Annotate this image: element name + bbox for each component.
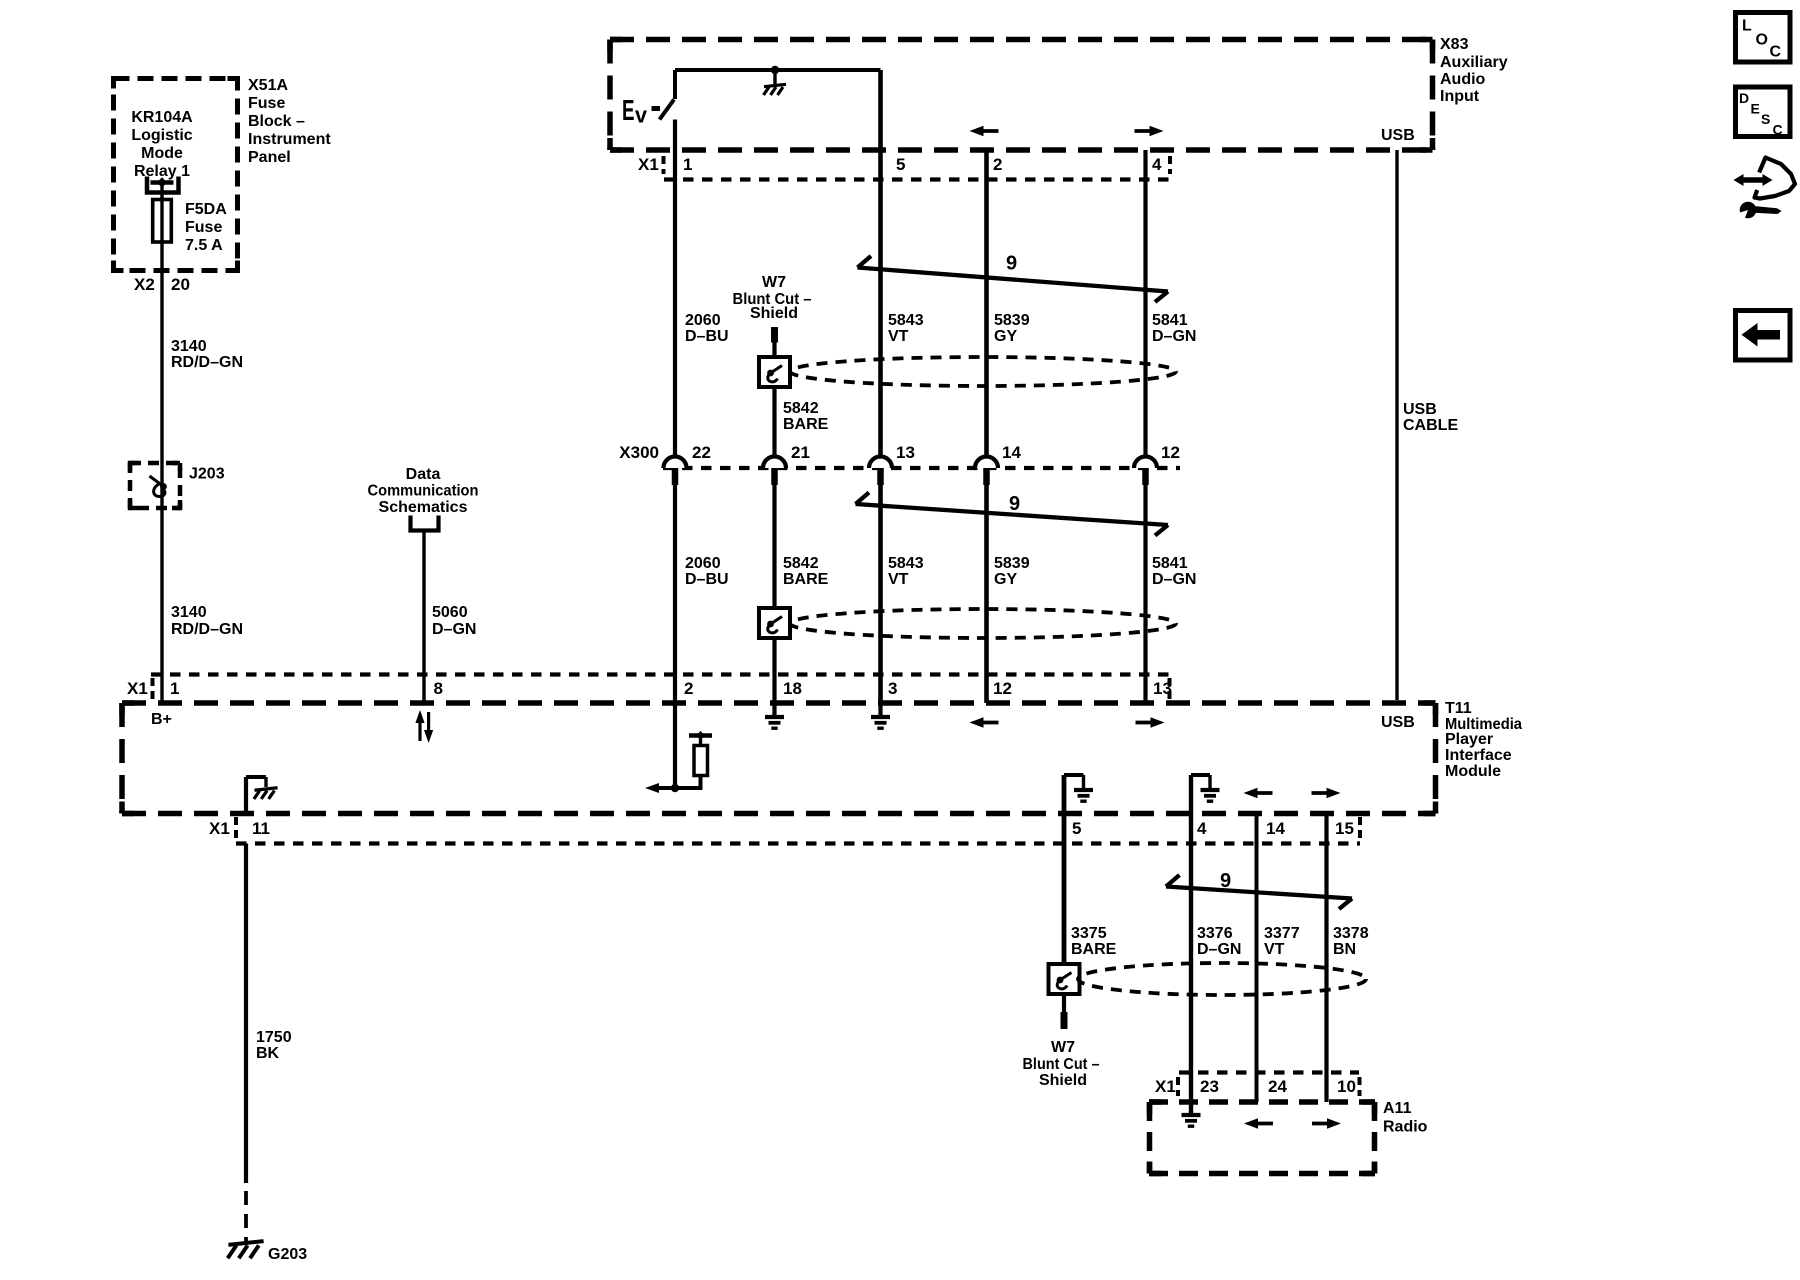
wire 5843 VT (X83 pin 5 to X300 pin 13) [878, 70, 883, 457]
svg-text:4: 4 [1197, 819, 1207, 838]
transfer arrow 9 (middle) [856, 493, 1169, 536]
label wire 1750 BK [256, 1029, 292, 1062]
connector X300 pin 13 [869, 443, 915, 485]
bidirectional arrows below T11 pin 8 [415, 710, 433, 743]
connector T11 X1 dotted row (bottom) [236, 817, 1360, 844]
svg-text:Player: Player [1445, 731, 1493, 748]
fuse block X51A box [114, 79, 238, 271]
shield ellipse (upper) [790, 357, 1176, 386]
wire 5839 GY (X300 to T11 pin 12) [984, 485, 989, 703]
svg-text:F5DA: F5DA [185, 201, 227, 218]
svg-text:X1: X1 [209, 819, 230, 838]
svg-text:8: 8 [434, 679, 443, 698]
wire below shield box to blunt cut [1062, 994, 1066, 1012]
label J203 [189, 466, 225, 483]
wire 3377 VT (T11 pin 14 to radio pin 24) [1255, 814, 1259, 1103]
svg-text:14: 14 [1002, 443, 1021, 462]
svg-text:O: O [1756, 32, 1768, 49]
wire 5839 GY (X83 pin 2 to X300 pin 14) [984, 150, 989, 457]
shield splice box (upper) [759, 357, 790, 387]
svg-text:3: 3 [888, 679, 897, 698]
svg-text:X83: X83 [1440, 36, 1469, 53]
svg-text:BARE: BARE [1071, 941, 1117, 958]
label USB (T11 pin) [1381, 714, 1415, 731]
svg-text:USB: USB [1381, 714, 1415, 731]
svg-text:VT: VT [888, 328, 909, 345]
svg-text:1750: 1750 [256, 1029, 292, 1046]
connector X2 pin 20 labels [134, 275, 190, 294]
shield splice box (lower) [1049, 964, 1080, 994]
svg-text:2: 2 [993, 155, 1002, 174]
svg-text:W7: W7 [762, 274, 786, 291]
svg-text:S: S [1761, 111, 1770, 127]
junction node inside X83 [771, 66, 779, 74]
ground G203 [228, 1241, 264, 1258]
splice J203 [130, 463, 180, 508]
label wire 3140 RD/D-GN (upper) [171, 338, 243, 371]
T11 pin 2 internal circuit: wire, junction, arrow, resistor to B+ [673, 703, 677, 788]
svg-text:5843: 5843 [888, 555, 924, 572]
svg-text:L: L [1742, 18, 1752, 35]
label USB CABLE [1403, 401, 1458, 434]
svg-text:3140: 3140 [171, 338, 207, 355]
label F5DA Fuse 7.5 A [185, 201, 227, 254]
label A11 Radio [1383, 1100, 1428, 1136]
svg-text:1: 1 [683, 155, 692, 174]
svg-text:12: 12 [993, 679, 1012, 698]
wire 5842 BARE shield drain (upper) [772, 343, 776, 457]
internal arrow right at radio pin 10 [1312, 1118, 1341, 1129]
label wire 5842 BARE (middle) [783, 555, 829, 588]
connector X83 X1 dotted row [664, 156, 1171, 180]
label wire 2060 D-BU (upper) [685, 312, 729, 345]
internal ground hook at T11 pin 11 [246, 777, 278, 814]
svg-text:BK: BK [256, 1045, 280, 1062]
internal arrow left at T11 pin 14 [1244, 788, 1273, 799]
svg-text:Communication: Communication [368, 483, 479, 500]
wire 5841 D-GN (X83 pin 4 to X300 pin 12) [1143, 150, 1147, 457]
svg-text:KR104A: KR104A [131, 109, 193, 126]
svg-text:3375: 3375 [1071, 925, 1107, 942]
svg-text:RD/D–GN: RD/D–GN [171, 354, 243, 371]
wire 3375 BARE shield drain [1062, 814, 1067, 965]
wire 2060 D-BU (X300 to T11 pin 2) [673, 485, 677, 703]
svg-text:Radio: Radio [1383, 1119, 1428, 1136]
svg-text:5060: 5060 [432, 604, 468, 621]
svg-text:G203: G203 [268, 1246, 307, 1263]
svg-text:VT: VT [1264, 941, 1285, 958]
label wire 5839 GY (upper) [994, 312, 1030, 345]
svg-text:Panel: Panel [248, 149, 291, 166]
svg-text:Module: Module [1445, 763, 1501, 780]
label wire 5842 BARE (upper) [783, 400, 829, 433]
svg-text:24: 24 [1268, 1077, 1287, 1096]
wire 3376 D-GN (T11 pin 4 to radio pin 23) [1189, 814, 1193, 1114]
wire 5841 D-GN (X300 to T11 pin 13) [1143, 485, 1147, 703]
wire 1750 BK [244, 844, 248, 1184]
internal ground at radio pin 23 [1182, 1115, 1201, 1126]
label wire 3375 BARE [1071, 925, 1117, 958]
connector T11 X1 dotted row (top) [151, 675, 1170, 700]
label T11 Multimedia Player Interface Module [1445, 700, 1522, 780]
svg-text:2: 2 [684, 679, 693, 698]
svg-text:15: 15 [1335, 819, 1354, 838]
svg-text:B+: B+ [151, 711, 172, 728]
svg-text:D–GN: D–GN [1152, 328, 1196, 345]
relay KR104A contact symbol [147, 177, 179, 200]
wire 5060 D-GN to T11 pin 8 [422, 531, 425, 704]
svg-text:USB: USB [1381, 127, 1415, 144]
shield ellipse (middle) [790, 609, 1176, 638]
internal arrow left at radio pin 24 [1244, 1118, 1273, 1129]
svg-text:BARE: BARE [783, 571, 829, 588]
label USB (X83 pin) [1381, 127, 1415, 144]
svg-text:21: 21 [791, 443, 810, 462]
internal pull-up fuse/resistor at pin 2 [689, 731, 712, 790]
svg-text:23: 23 [1200, 1077, 1219, 1096]
connector X83 X1 pin labels [638, 155, 1162, 174]
internal ground hook at T11 pin 5 [1064, 775, 1093, 814]
svg-text:Auxiliary: Auxiliary [1440, 54, 1508, 71]
shield ellipse (lower) [1078, 963, 1366, 995]
svg-text:X300: X300 [619, 443, 659, 462]
svg-text:2060: 2060 [685, 312, 721, 329]
svg-text:18: 18 [783, 679, 802, 698]
svg-text:22: 22 [692, 443, 711, 462]
svg-text:5839: 5839 [994, 555, 1030, 572]
svg-text:VT: VT [888, 571, 909, 588]
svg-text:5: 5 [1072, 819, 1081, 838]
internal arrow left (pin 2) [645, 783, 702, 793]
svg-text:Blunt Cut –: Blunt Cut – [1023, 1056, 1100, 1073]
svg-text:Shield: Shield [750, 305, 798, 322]
svg-text:E: E [622, 95, 635, 127]
wire 5843 VT (X300 to T11 pin 3) [878, 485, 883, 703]
svg-text:11: 11 [252, 819, 270, 838]
svg-text:Mode: Mode [141, 145, 183, 162]
svg-text:Instrument: Instrument [248, 131, 331, 148]
label wire 5843 VT (upper) [888, 312, 924, 345]
svg-text:J203: J203 [189, 466, 225, 483]
svg-text:9: 9 [1220, 870, 1231, 892]
icon back arrow button [1736, 311, 1791, 361]
switch Ev (door/accessory switch) [622, 95, 674, 128]
internal arrow right at T11 pin 15 [1312, 788, 1341, 799]
svg-text:D–BU: D–BU [685, 571, 729, 588]
svg-text:Audio: Audio [1440, 71, 1486, 88]
connector T11 X1 top pin labels [127, 679, 1172, 698]
svg-text:C: C [1773, 122, 1783, 138]
svg-text:A11: A11 [1383, 1100, 1412, 1117]
internal arrow left at T11 pin 12 [970, 717, 999, 728]
connector A11 X1 pin labels [1155, 1077, 1356, 1096]
transfer arrow 9 (lower) [1166, 870, 1352, 909]
internal ground at T11 pin 3 [871, 703, 890, 728]
connector T11 X1 bottom pin labels [209, 819, 1354, 838]
wire 5842 BARE (X300 to T11 pin 18) [772, 485, 776, 703]
svg-text:Data: Data [406, 466, 441, 483]
label G203 [268, 1246, 307, 1263]
svg-text:Interface: Interface [1445, 747, 1512, 764]
wire 3140 RD/D-GN from fuse to T11 pin 1 [160, 243, 163, 703]
svg-text:10: 10 [1337, 1077, 1356, 1096]
svg-text:D–GN: D–GN [1152, 571, 1196, 588]
connector X300 pin 22 [664, 443, 711, 485]
internal ground hook at T11 pin 4 [1191, 775, 1220, 814]
svg-text:5841: 5841 [1152, 312, 1188, 329]
svg-text:D–BU: D–BU [685, 328, 729, 345]
svg-text:USB: USB [1403, 401, 1437, 418]
svg-text:Shield: Shield [1039, 1072, 1087, 1089]
blunt cut terminal W7 (upper) [771, 327, 778, 343]
connector X300 pin 12 [1134, 443, 1180, 485]
svg-text:3378: 3378 [1333, 925, 1369, 942]
svg-text:X51A: X51A [248, 77, 288, 94]
svg-text:5: 5 [896, 155, 905, 174]
svg-text:5843: 5843 [888, 312, 924, 329]
internal ground at T11 pin 18 [765, 703, 784, 728]
chassis ground inside X83 [764, 70, 787, 95]
off-page bracket Data Communication [411, 516, 439, 531]
svg-text:Schematics: Schematics [379, 499, 468, 516]
svg-text:E: E [1751, 101, 1760, 117]
icon DESC button [1736, 87, 1791, 138]
label wire 3140 RD/D-GN (lower) [171, 604, 243, 638]
svg-text:X1: X1 [1155, 1077, 1176, 1096]
svg-text:7.5 A: 7.5 A [185, 237, 223, 254]
svg-text:X1: X1 [638, 155, 659, 174]
label KR104A Logistic Mode Relay 1 [131, 109, 193, 180]
svg-text:v: v [635, 103, 648, 128]
module A11 Radio box [1149, 1102, 1375, 1174]
signal arrow (left) inside X83 above pin 2 [970, 126, 999, 137]
svg-text:GY: GY [994, 571, 1017, 588]
svg-text:3377: 3377 [1264, 925, 1300, 942]
svg-text:3376: 3376 [1197, 925, 1233, 942]
shield splice box (middle) [759, 608, 790, 638]
dashed wire to G203 [244, 1191, 248, 1242]
svg-text:14: 14 [1266, 819, 1285, 838]
label X51A Fuse Block - Instrument Panel [248, 77, 331, 166]
svg-text:5842: 5842 [783, 400, 819, 417]
label wire 3376 D-GN [1197, 925, 1241, 958]
signal arrow (right) inside X83 above pin 4 [1135, 126, 1164, 137]
svg-text:BARE: BARE [783, 416, 829, 433]
blunt cut terminal W7 (lower) [1061, 1012, 1068, 1029]
junction node T11 pin 2 [671, 784, 679, 792]
svg-text:2060: 2060 [685, 555, 721, 572]
svg-text:Fuse: Fuse [185, 219, 222, 236]
svg-text:5841: 5841 [1152, 555, 1188, 572]
svg-text:Logistic: Logistic [131, 127, 192, 144]
label wire 5841 D-GN (middle) [1152, 555, 1196, 588]
wire 2060 D-BU (X83 pin 1 to X300 pin 22) [673, 120, 677, 457]
svg-text:RD/D–GN: RD/D–GN [171, 621, 243, 638]
svg-text:C: C [1770, 44, 1782, 61]
icon LOC button [1736, 13, 1791, 63]
svg-text:Fuse: Fuse [248, 95, 285, 112]
wire 3378 BN (T11 pin 15 to radio pin 10) [1324, 814, 1328, 1103]
svg-text:13: 13 [896, 443, 915, 462]
label B+ [151, 711, 172, 728]
svg-text:CABLE: CABLE [1403, 417, 1458, 434]
svg-text:Block –: Block – [248, 113, 305, 130]
label X83 Auxiliary Audio Input [1440, 36, 1508, 105]
connector A11 X1 dotted row [1178, 1073, 1360, 1097]
svg-text:1: 1 [170, 679, 179, 698]
icon data link connector [1734, 158, 1796, 222]
fuse F5DA 7.5 A [153, 197, 172, 244]
connector X300 dotted row [663, 466, 1180, 470]
label W7 Blunt Cut Shield (lower) [1023, 1039, 1100, 1089]
svg-text:3140: 3140 [171, 604, 207, 621]
transfer arrow 9 (upper) [858, 253, 1169, 303]
connector X300 pin 21 [763, 443, 810, 485]
svg-text:5842: 5842 [783, 555, 819, 572]
wire USB CABLE (X83 to T11) [1395, 150, 1398, 700]
svg-text:D: D [1739, 90, 1749, 106]
svg-text:W7: W7 [1051, 1039, 1075, 1056]
svg-text:4: 4 [1152, 155, 1162, 174]
svg-text:20: 20 [171, 275, 190, 294]
svg-text:T11: T11 [1445, 700, 1472, 717]
svg-text:BN: BN [1333, 941, 1356, 958]
label wire 5841 D-GN (upper) [1152, 312, 1196, 345]
svg-text:GY: GY [994, 328, 1017, 345]
label wire 3377 VT [1264, 925, 1300, 958]
label wire 5060 D-GN [432, 604, 476, 638]
label Data Communication Schematics [368, 466, 479, 516]
svg-text:5839: 5839 [994, 312, 1030, 329]
svg-text:12: 12 [1161, 443, 1180, 462]
label wire 3378 BN [1333, 925, 1369, 958]
svg-text:X2: X2 [134, 275, 155, 294]
label X300 [619, 443, 659, 462]
module T11 Multimedia Player Interface Module box [122, 703, 1436, 814]
label wire 2060 D-BU (middle) [685, 555, 729, 588]
internal arrow right at T11 pin 13 [1136, 717, 1165, 728]
svg-text:9: 9 [1009, 493, 1020, 515]
label wire 5843 VT (middle) [888, 555, 924, 588]
label wire 5839 GY (middle) [994, 555, 1030, 588]
label W7 Blunt Cut Shield (upper) [733, 274, 812, 322]
connector X300 pin 14 [975, 443, 1021, 485]
svg-text:9: 9 [1006, 253, 1017, 275]
svg-text:D–GN: D–GN [1197, 941, 1241, 958]
wire inside X83 from switch to pin 5 [675, 70, 881, 99]
svg-text:Input: Input [1440, 88, 1480, 105]
svg-text:13: 13 [1153, 679, 1172, 698]
svg-text:X1: X1 [127, 679, 148, 698]
module X83 Auxiliary Audio Input box [610, 40, 1433, 151]
svg-text:D–GN: D–GN [432, 621, 476, 638]
